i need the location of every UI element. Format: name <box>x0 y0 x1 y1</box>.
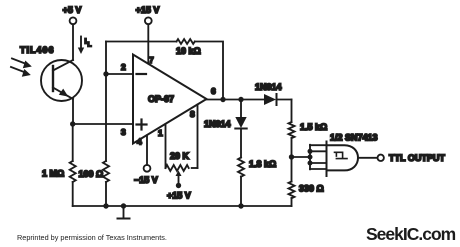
resistor R 1.5k <box>289 100 328 158</box>
svg-text:6: 6 <box>211 86 216 96</box>
terminal TTL OUTPUT <box>378 153 446 163</box>
svg-text:+15 V: +15 V <box>167 191 191 201</box>
svg-text:1 MΩ: 1 MΩ <box>42 169 64 179</box>
junction dot 1.8k-rail <box>238 203 243 208</box>
svg-text:1N914: 1N914 <box>204 119 231 129</box>
junction dot 100ohm-rail <box>103 203 108 208</box>
wire output rail <box>207 99 265 101</box>
wire gate output <box>358 157 378 159</box>
svg-text:10 kΩ: 10 kΩ <box>176 46 201 56</box>
svg-text:1.8 kΩ: 1.8 kΩ <box>249 159 276 169</box>
svg-text:100 Ω: 100 Ω <box>79 169 104 179</box>
svg-text:7: 7 <box>149 55 154 65</box>
wire +5V to collector <box>72 24 74 60</box>
svg-text:1/2 SN7413: 1/2 SN7413 <box>330 133 378 143</box>
transistor Q1 TIL406 <box>20 45 82 101</box>
wire node C to gate <box>292 156 311 158</box>
feedback rail wire <box>106 42 223 100</box>
node B junction dot (inverting input) <box>103 71 108 76</box>
svg-text:TIL406: TIL406 <box>20 45 55 55</box>
svg-text:+15 V: +15 V <box>136 5 160 15</box>
svg-text:OP-07: OP-07 <box>148 94 174 104</box>
potentiometer 20K <box>166 105 198 201</box>
svg-text:Reprinted by permission of Tex: Reprinted by permission of Texas Instrum… <box>17 233 167 242</box>
resistor R 330 <box>289 157 324 206</box>
current label IL arrow <box>78 37 92 55</box>
svg-text:3: 3 <box>121 127 126 137</box>
svg-text:1.5 kΩ: 1.5 kΩ <box>300 122 327 132</box>
wire +15V to pin 7 <box>147 24 149 63</box>
svg-text:1: 1 <box>158 128 163 138</box>
resistor R 1.8k <box>238 158 276 207</box>
light arrow 1 <box>12 59 32 69</box>
wire node A to pin 3 <box>73 123 133 125</box>
svg-text:2: 2 <box>121 62 126 72</box>
svg-text:SeekIC.com: SeekIC.com <box>366 224 456 244</box>
terminal +5V <box>63 5 82 24</box>
light arrow 2 <box>11 67 31 77</box>
gate input tie bar <box>308 145 327 170</box>
svg-text:8: 8 <box>190 109 195 119</box>
ground <box>118 206 130 219</box>
svg-text:1N914: 1N914 <box>255 82 282 92</box>
diode D2 1N914 clamp <box>204 100 247 158</box>
wire emitter down <box>72 99 74 124</box>
resistor R 100 ohm <box>79 42 110 207</box>
svg-text:TTL OUTPUT: TTL OUTPUT <box>389 153 445 163</box>
wire node B to pin 2 <box>106 73 133 75</box>
svg-text:330 Ω: 330 Ω <box>299 184 324 194</box>
op-amp U1 OP-07 <box>121 55 216 147</box>
junction dot clamp tap <box>238 97 243 102</box>
svg-text:4: 4 <box>137 137 142 147</box>
svg-text:+5 V: +5 V <box>63 5 82 15</box>
resistor R 1M <box>42 124 76 206</box>
resistor R 10k <box>176 39 201 56</box>
node C junction dot gate input <box>289 154 294 159</box>
terminal -15V <box>134 135 158 185</box>
svg-text:20 K: 20 K <box>170 151 190 161</box>
node A junction dot <box>70 121 75 126</box>
svg-text:L: L <box>88 42 92 49</box>
ground rail wire <box>73 205 292 207</box>
junction dot ground tap <box>121 203 126 208</box>
junction dot feedback tap <box>220 97 225 102</box>
svg-text:−15 V: −15 V <box>134 175 158 185</box>
diode D1 1N914 series <box>255 82 292 105</box>
terminal +15V top <box>136 5 160 24</box>
gate U2 1/2 SN7413 <box>327 133 378 177</box>
svg-text:I: I <box>85 37 87 46</box>
